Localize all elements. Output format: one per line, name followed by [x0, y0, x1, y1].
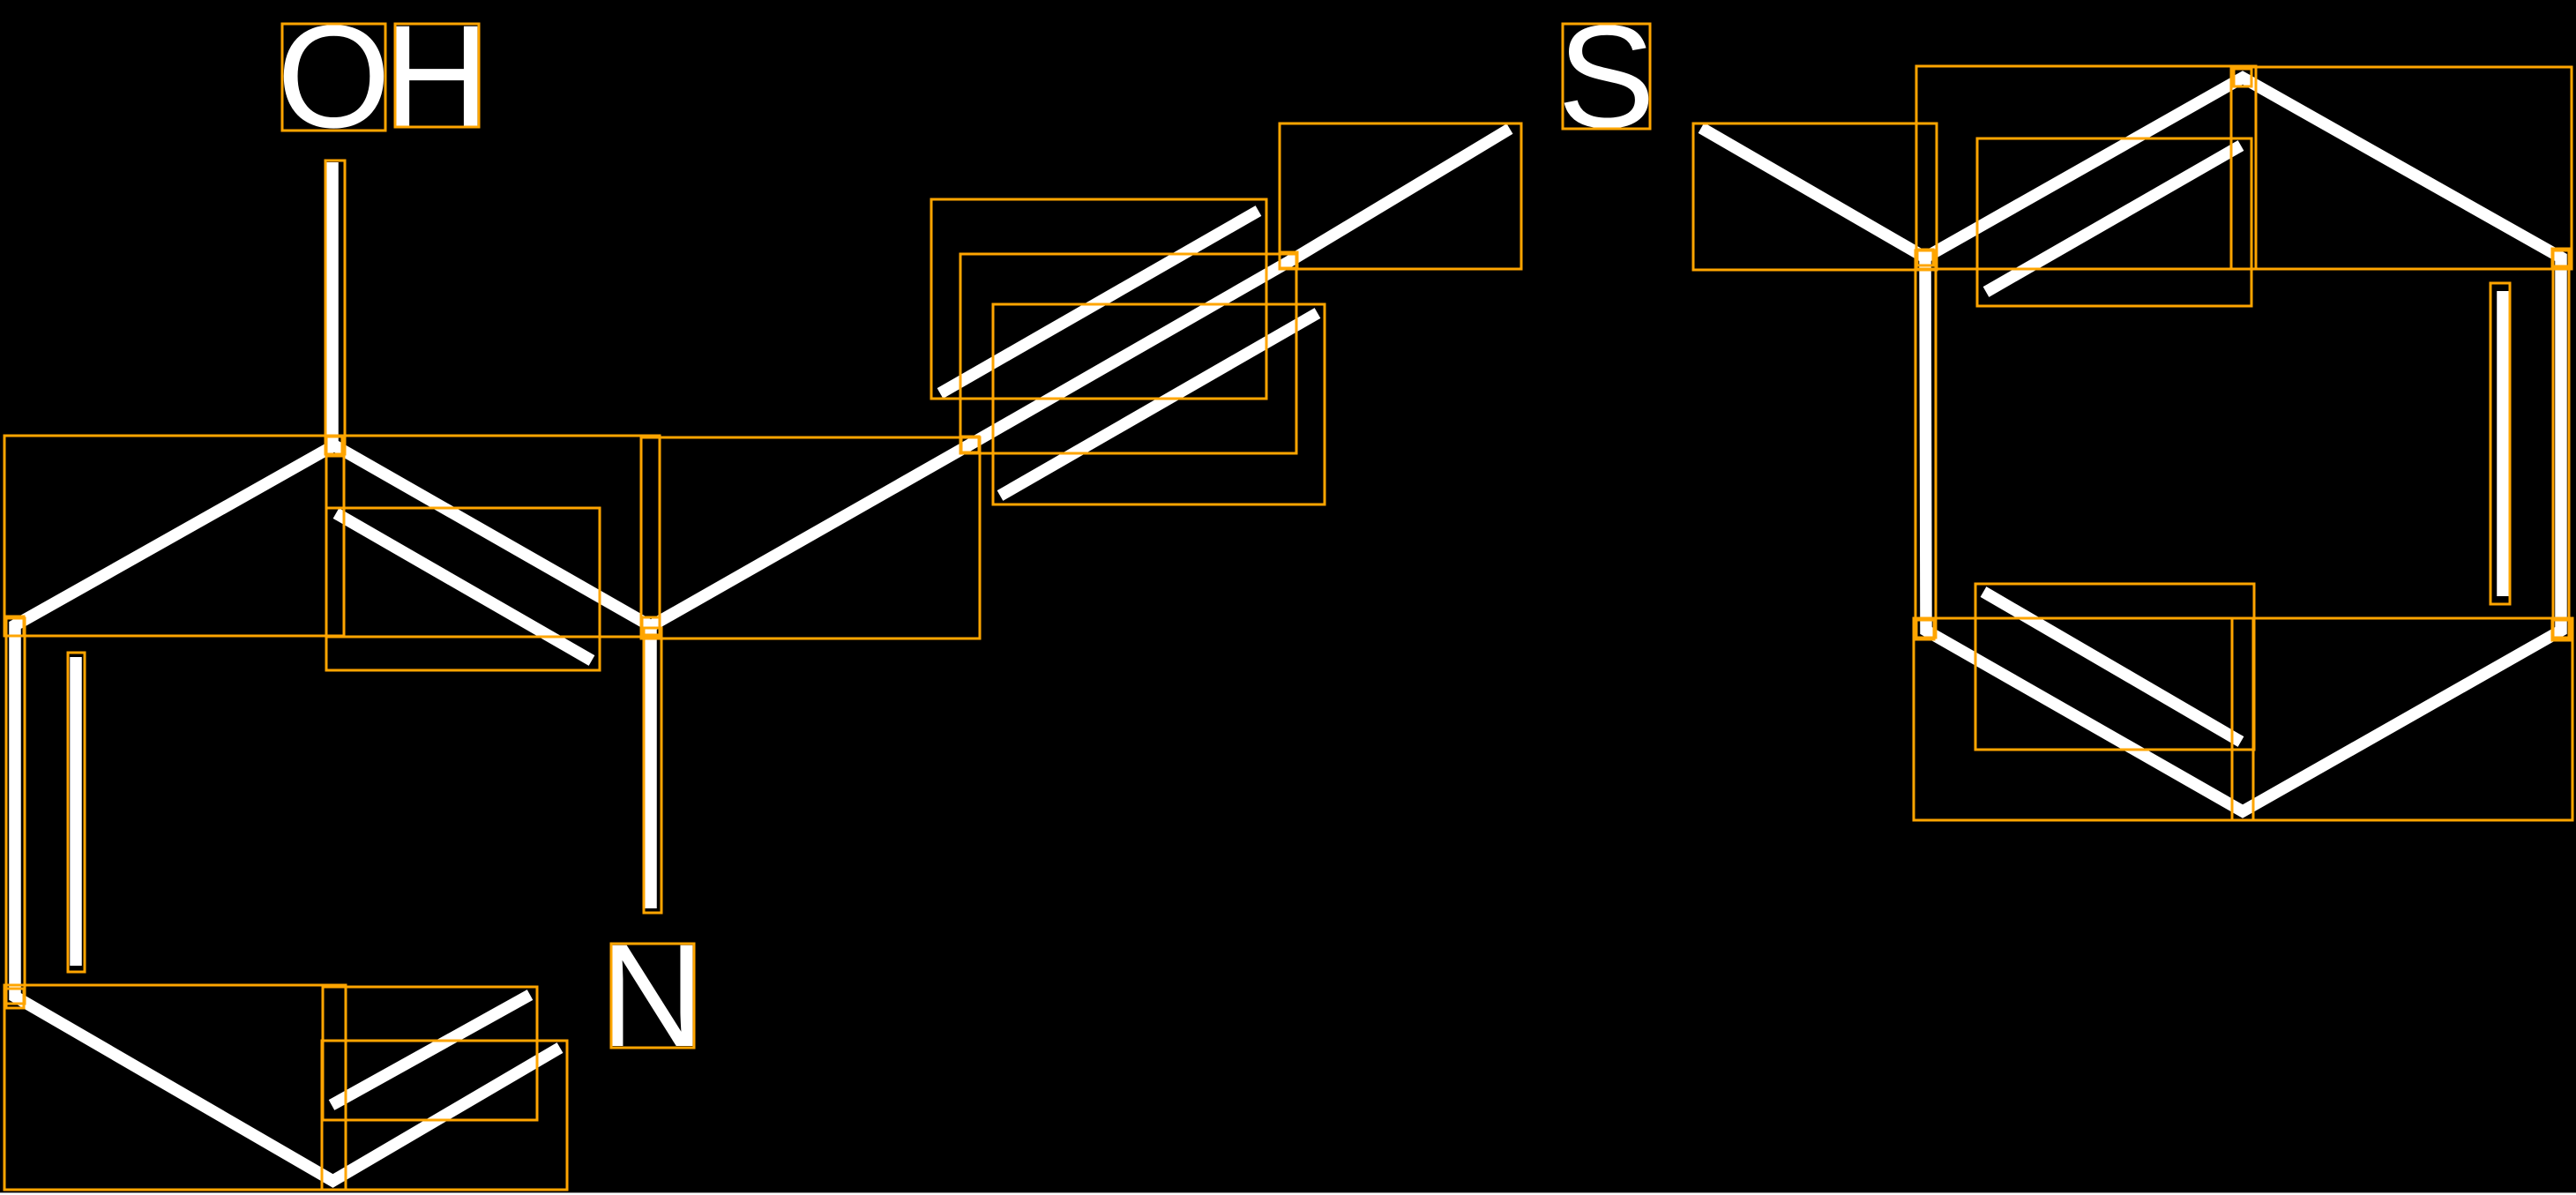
box bond C12=C13 inner [1975, 584, 2254, 750]
box vertex C6 [961, 437, 979, 452]
bond C6#C7 lower [1000, 313, 1318, 496]
box vertex C10 [2552, 249, 2570, 266]
box bond C1=C5 inner [326, 508, 600, 670]
box bond C3-C4 [4, 985, 346, 1190]
box bond C9-C10 [2231, 67, 2572, 269]
box bond C1-C5 [326, 436, 660, 637]
box bond C4=N inner [323, 987, 537, 1120]
bond C1=C5 inner [336, 513, 592, 661]
box vertex C13 [1916, 620, 1934, 639]
box bond C1-C2 [4, 436, 344, 636]
bond S-C8 [1701, 128, 1925, 258]
box bond C13-C8 [1915, 250, 1936, 638]
box bond C2-C3 [6, 618, 25, 1004]
box bond C10-C11 [2553, 250, 2569, 638]
bond C2=C3 inner [70, 657, 82, 966]
chain C5-C6-C7-S main [651, 129, 1510, 626]
bond C10=C11 inner [2497, 291, 2509, 596]
box label S [1563, 24, 1650, 129]
box vertex C2 [6, 616, 24, 636]
bond C8=C9 inner [1986, 146, 2241, 292]
box bond C8=C9 inner [1977, 138, 2251, 306]
box vertex C11 [2552, 620, 2570, 640]
box vertex C9 [2234, 69, 2251, 86]
box bond C2=C3 inner [68, 653, 85, 972]
bond C6#C7 upper [940, 211, 1258, 393]
box bond O-C1 [325, 161, 345, 454]
box bond C6#C7 upper [931, 199, 1266, 399]
box bond C4-N main [322, 1041, 567, 1190]
box label O [282, 24, 385, 131]
box bond C5-N [644, 628, 661, 913]
box bond C12-C13 [1914, 618, 2253, 820]
box bond C10=C11 inner [2490, 283, 2510, 604]
box bond C6#C7 lower [993, 304, 1325, 504]
bond C4=N inner [332, 995, 530, 1105]
box vertex C5 [642, 617, 660, 635]
box label N [611, 944, 694, 1048]
box bond C7-S [1280, 123, 1521, 269]
ring1 pyridine outline N-C5-C1-C2-C3-C4-N [15, 445, 651, 1181]
ring2 benzene outline C8-C9-C10-C11-C12-C13 [1925, 78, 2561, 811]
bond O-C1 [326, 162, 339, 449]
box bond C11-C12 [2232, 618, 2572, 820]
box bond C6-C7 main [960, 254, 1296, 453]
box vertex C1 [326, 437, 342, 456]
bottom white edge strip [0, 1192, 2576, 1195]
svg-text:N: N [599, 915, 705, 1078]
box vertex C8 [1917, 250, 1933, 265]
box vertex C3 [6, 989, 24, 1008]
bond C12=C13 inner [1983, 592, 2241, 742]
box vertex C7 [1280, 252, 1297, 268]
box bond C5-C6 [641, 437, 980, 639]
box bond C8-C9 [1916, 66, 2256, 269]
box bond S-C8 [1693, 123, 1937, 270]
box label H [395, 24, 479, 127]
